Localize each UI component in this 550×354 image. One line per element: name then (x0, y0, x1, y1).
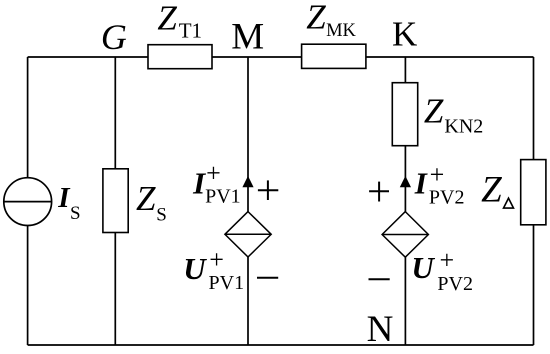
svg-text:M: M (231, 17, 264, 58)
svg-text:+: + (440, 246, 455, 275)
svg-text:Z: Z (424, 92, 444, 131)
svg-text:PV2: PV2 (437, 273, 473, 295)
svg-text:T1: T1 (179, 18, 202, 42)
svg-text:S: S (70, 203, 81, 224)
svg-text:Z: Z (306, 0, 326, 37)
svg-text:PV1: PV1 (205, 186, 241, 208)
svg-text:+: + (209, 245, 224, 274)
svg-text:PV2: PV2 (429, 186, 465, 208)
svg-text:PV1: PV1 (209, 272, 245, 294)
svg-text:N: N (367, 309, 394, 350)
svg-text:MK: MK (326, 21, 356, 41)
svg-text:G: G (101, 17, 127, 57)
svg-text:I: I (192, 165, 206, 200)
svg-text:Z: Z (481, 169, 502, 210)
svg-text:Z: Z (136, 179, 156, 218)
svg-text:K: K (392, 15, 417, 54)
svg-text:Z: Z (157, 0, 177, 38)
svg-text:KN2: KN2 (444, 116, 483, 138)
svg-text:U: U (183, 251, 207, 286)
svg-text:+: + (430, 160, 445, 189)
svg-text:U: U (411, 250, 435, 285)
svg-text:I: I (414, 166, 428, 201)
svg-text:+: + (206, 158, 221, 187)
svg-text:S: S (156, 204, 167, 225)
